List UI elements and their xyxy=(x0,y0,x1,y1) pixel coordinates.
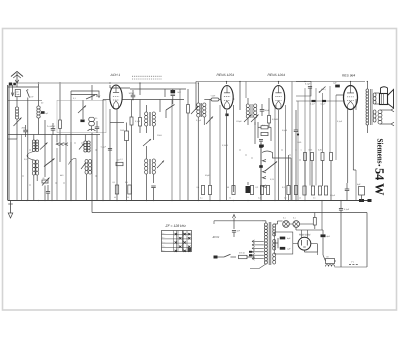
scatter dots xyxy=(47,182,48,183)
heater wire xyxy=(214,220,262,222)
antenna xyxy=(11,72,23,77)
RF transformer left coil xyxy=(197,103,200,107)
resistor R1 xyxy=(59,120,62,129)
wire xyxy=(309,88,311,185)
capacitor 4uF a xyxy=(280,237,286,240)
wire xyxy=(33,135,35,141)
svg-text:c....: c.... xyxy=(162,241,165,243)
svg-text:4μF: 4μF xyxy=(287,237,291,240)
Siemens dot xyxy=(378,164,380,166)
wire xyxy=(322,93,324,152)
svg-text:0,1μF: 0,1μF xyxy=(337,120,343,123)
wire xyxy=(172,96,174,104)
speaker wires xyxy=(375,92,380,94)
svg-text:54 W: 54 W xyxy=(373,168,387,196)
tube V2 xyxy=(221,86,233,110)
wire xyxy=(126,148,128,201)
resistor bank 3 xyxy=(250,186,253,195)
resistor bank 1 xyxy=(208,186,211,195)
svg-text:0,3MΩ: 0,3MΩ xyxy=(222,144,228,147)
svg-text:5k: 5k xyxy=(229,197,231,200)
wire xyxy=(187,89,189,105)
svg-text:d....: d.... xyxy=(162,245,165,248)
resistor bank 0 xyxy=(201,186,204,195)
switch S3 xyxy=(166,105,175,111)
wire xyxy=(123,99,185,101)
band switch contact 3 xyxy=(65,143,68,146)
svg-text:50: 50 xyxy=(227,186,229,189)
corner loop wire xyxy=(296,81,311,96)
wire xyxy=(226,82,228,85)
band coil D right xyxy=(89,159,92,163)
svg-text:60: 60 xyxy=(43,177,45,180)
screen-grid feed line xyxy=(296,100,345,102)
arrow var xyxy=(191,106,199,114)
svg-text:ZF = 128 kHz: ZF = 128 kHz xyxy=(165,224,187,228)
top rail right xyxy=(196,81,365,83)
ground bus xyxy=(8,200,370,202)
resistor xyxy=(303,186,306,195)
arrow var coilA xyxy=(40,143,48,150)
svg-text:2MΩ: 2MΩ xyxy=(120,129,125,132)
capacitor 100pF xyxy=(131,94,136,96)
wire xyxy=(16,119,18,134)
PT taps xyxy=(252,240,264,242)
terminal arrows xyxy=(391,108,394,112)
V4 pin wires xyxy=(347,110,349,184)
capacitor xyxy=(151,185,156,187)
capacitor blob 1uF xyxy=(335,85,340,88)
wire xyxy=(44,186,46,201)
wire xyxy=(361,195,363,201)
wire xyxy=(330,161,332,201)
switch S1 xyxy=(27,90,30,98)
wire xyxy=(245,82,247,99)
wire xyxy=(277,238,279,248)
arrow up xyxy=(233,215,236,219)
svg-text:0,25: 0,25 xyxy=(318,149,322,152)
wire xyxy=(44,120,46,177)
osc coil A core xyxy=(34,140,36,152)
PT secondary mid xyxy=(273,239,276,243)
resistor lamp xyxy=(313,218,316,226)
lamp wires xyxy=(278,220,283,222)
wire xyxy=(336,94,343,96)
wire xyxy=(295,110,297,124)
capacitor left xyxy=(46,191,50,193)
OT secondary a xyxy=(373,93,376,97)
clover coil L3 xyxy=(92,117,95,126)
wire xyxy=(110,122,124,124)
speaker cone xyxy=(388,90,394,109)
svg-text:0,1μF: 0,1μF xyxy=(321,103,327,106)
wire xyxy=(59,84,61,120)
osc coil B left xyxy=(32,160,35,164)
resistor xyxy=(330,153,333,161)
resistor 475 xyxy=(239,255,248,258)
speaker lower winding xyxy=(378,110,382,114)
svg-text:0,1μF: 0,1μF xyxy=(344,208,350,211)
arrowhead loop xyxy=(98,96,100,98)
rect top pins xyxy=(301,230,303,238)
resistor xyxy=(321,153,324,161)
svg-text:1MΩ: 1MΩ xyxy=(297,141,302,144)
svg-text:Ant: Ant xyxy=(16,91,19,94)
volume blob top xyxy=(259,145,263,148)
resistor bank 6 xyxy=(287,186,290,195)
svg-text:0,5: 0,5 xyxy=(24,158,28,161)
pilot lamp 1 xyxy=(283,221,290,228)
volume pot arrow xyxy=(265,162,277,172)
top rail xyxy=(17,82,196,84)
tube V2 cathode blob xyxy=(225,114,228,117)
horizontal res R8 xyxy=(261,132,268,135)
horizontal wire xyxy=(8,134,100,136)
wire xyxy=(278,110,280,201)
wire xyxy=(59,129,61,163)
band switch contact 1 xyxy=(56,143,59,146)
svg-text:1k: 1k xyxy=(299,197,301,200)
svg-text:RGN 1064: RGN 1064 xyxy=(299,233,311,236)
mains switch xyxy=(218,256,225,258)
wire xyxy=(171,100,173,201)
vertical wire left rail xyxy=(7,85,9,201)
wire xyxy=(75,159,77,201)
wire xyxy=(82,100,84,119)
coil L2 xyxy=(37,106,40,109)
wire xyxy=(109,85,111,88)
junction dot xyxy=(297,133,299,135)
svg-text:0,25: 0,25 xyxy=(270,178,275,181)
svg-text:0,1: 0,1 xyxy=(113,181,117,184)
svg-text:0,5μF: 0,5μF xyxy=(330,194,336,197)
svg-text:0,5μF: 0,5μF xyxy=(282,129,288,132)
svg-text:RES 964: RES 964 xyxy=(342,74,355,78)
arrow var T1 xyxy=(143,139,151,146)
capacitor 1nF xyxy=(232,230,236,232)
band coil C core xyxy=(86,141,88,152)
PT bottom lead xyxy=(250,264,266,269)
wire grid line xyxy=(103,99,110,101)
contact arrow 1 xyxy=(263,160,267,162)
wire xyxy=(91,126,93,131)
svg-text:2×440pF: 2×440pF xyxy=(47,125,56,128)
wire xyxy=(295,227,297,230)
coupling loop outer xyxy=(71,91,99,96)
svg-text:0,3: 0,3 xyxy=(258,197,261,200)
capacitor blob 5nF xyxy=(171,90,176,93)
PT secondary top xyxy=(273,224,276,227)
resistor bank 4 xyxy=(260,186,263,195)
bracket between coils xyxy=(27,152,34,161)
horizontal resistor 1M xyxy=(116,162,123,165)
svg-text:475 Ω: 475 Ω xyxy=(239,252,245,255)
capacitor blob 1uF input xyxy=(41,111,45,114)
arrow var T2 xyxy=(157,161,164,169)
tube V3 xyxy=(272,86,284,110)
ground symbol xyxy=(10,201,12,214)
table grid xyxy=(162,231,192,252)
capacitor C2 2x440pF xyxy=(51,128,56,130)
wire xyxy=(285,105,287,201)
wire xyxy=(70,142,72,201)
resistor xyxy=(324,186,327,195)
dot xyxy=(132,99,134,101)
capacitor 4uF box xyxy=(359,187,365,196)
svg-text:30: 30 xyxy=(114,196,116,199)
contact arrow 4 xyxy=(263,185,267,187)
svg-text:50pF: 50pF xyxy=(205,174,210,177)
svg-text:ACH 1: ACH 1 xyxy=(110,73,121,77)
svg-text:Siemens: Siemens xyxy=(376,139,385,165)
wire xyxy=(195,83,197,110)
capacitor blob xyxy=(259,145,264,148)
wire xyxy=(153,174,155,183)
volume bracket xyxy=(262,151,291,158)
wire xyxy=(314,213,316,218)
svg-text:1: 1 xyxy=(301,149,302,152)
wire xyxy=(254,122,256,144)
second top line xyxy=(130,88,186,90)
wire xyxy=(139,83,141,95)
PT core xyxy=(268,222,270,265)
wire xyxy=(84,135,86,142)
table X marks xyxy=(175,233,177,235)
capacitor blob on feed xyxy=(312,100,316,102)
contact arrow 3 xyxy=(263,177,267,179)
resistor R6 xyxy=(268,116,271,124)
capacitor 1uF b xyxy=(280,247,286,250)
wire xyxy=(179,89,181,201)
electrolytic blob xyxy=(246,186,251,193)
wire xyxy=(219,105,221,201)
wire xyxy=(289,223,293,225)
arrow var T3 xyxy=(244,115,252,123)
IF transformer T2 left coil xyxy=(145,159,148,163)
svg-text:50: 50 xyxy=(127,196,129,199)
wire xyxy=(153,126,155,140)
tube V4 xyxy=(344,86,358,110)
wire xyxy=(268,98,270,116)
resistor R3 xyxy=(130,117,133,125)
svg-text:0,5: 0,5 xyxy=(262,124,265,127)
wire xyxy=(209,99,211,186)
svg-text:e....: e.... xyxy=(162,250,165,252)
resistor bank 5 xyxy=(266,186,269,195)
resistor R4 xyxy=(115,185,118,194)
capacitor blob on feed2 xyxy=(322,100,326,102)
wire xyxy=(109,109,111,122)
resistor bank 7 xyxy=(294,186,297,195)
svg-text:0,1μF: 0,1μF xyxy=(310,103,316,106)
capacitor xyxy=(345,188,350,190)
svg-text:Erde: Erde xyxy=(16,93,20,96)
band switch contact 2 xyxy=(60,143,63,146)
wire xyxy=(16,97,18,107)
svg-text:b....: b.... xyxy=(162,236,165,239)
dot xyxy=(233,98,235,100)
wire xyxy=(312,229,323,231)
wire xyxy=(350,82,352,86)
wire xyxy=(70,91,72,201)
wire xyxy=(239,82,241,111)
T2 core xyxy=(148,159,150,174)
capacitor 0,1uF btm xyxy=(339,208,343,210)
arrow var xyxy=(78,106,86,114)
wire xyxy=(273,223,277,225)
wire xyxy=(16,134,18,139)
PT top lead xyxy=(265,221,267,223)
wire xyxy=(165,110,167,118)
svg-text:30: 30 xyxy=(95,117,98,120)
svg-text:0,5: 0,5 xyxy=(313,197,316,200)
gang dashed xyxy=(132,75,162,77)
wire xyxy=(116,109,118,201)
osc coil B core xyxy=(34,160,36,175)
svg-text:0,2: 0,2 xyxy=(282,186,285,189)
wire xyxy=(38,84,40,106)
wire xyxy=(322,161,324,187)
pilot lamp 2 xyxy=(293,221,300,228)
band coil D left xyxy=(85,159,88,163)
resistor xyxy=(311,153,314,161)
svg-text:1nF: 1nF xyxy=(30,96,34,99)
wire xyxy=(315,88,317,185)
svg-text:1,2: 1,2 xyxy=(120,158,124,161)
IF transformer T2 right coil xyxy=(152,159,155,163)
svg-text:<1nF: <1nF xyxy=(211,95,217,98)
svg-text:0,1: 0,1 xyxy=(200,197,203,200)
capacitor C xyxy=(95,126,100,128)
volume control stem xyxy=(260,143,262,201)
svg-text:0,15: 0,15 xyxy=(309,149,313,152)
output transformer primary xyxy=(366,89,369,92)
wire xyxy=(247,98,249,104)
wire xyxy=(278,82,280,85)
wire xyxy=(159,100,161,105)
wire xyxy=(56,135,58,143)
svg-text:0,1μF: 0,1μF xyxy=(305,83,311,86)
capacitor 4uF c xyxy=(321,234,326,237)
svg-text:0,1: 0,1 xyxy=(283,217,286,220)
RF transformer right coil xyxy=(203,103,206,107)
svg-text:1μF: 1μF xyxy=(45,112,49,115)
arrow var xyxy=(206,117,213,125)
wire xyxy=(304,88,306,200)
svg-text:440: 440 xyxy=(60,174,64,177)
ground bus junction dots xyxy=(26,200,27,201)
horizontal res R7 xyxy=(261,126,268,129)
arrow var L1 xyxy=(14,118,22,127)
svg-text:100pF: 100pF xyxy=(236,120,242,123)
resistor bank 2 xyxy=(232,186,235,195)
wire xyxy=(329,86,331,152)
svg-text:0,1μF: 0,1μF xyxy=(196,119,202,122)
svg-text:0,1: 0,1 xyxy=(293,217,296,220)
wire top-left xyxy=(16,83,18,87)
capacitor 0,1uF left xyxy=(108,148,112,150)
svg-text:4μF: 4μF xyxy=(357,183,361,186)
blob xyxy=(368,199,372,202)
contact arrow 2 xyxy=(263,171,267,173)
rail step xyxy=(195,82,197,84)
svg-text:0,1: 0,1 xyxy=(197,186,200,189)
wire xyxy=(311,161,313,187)
wire xyxy=(293,243,298,245)
OT secondary b xyxy=(373,110,376,114)
capacitor 0,1uF xyxy=(308,86,312,88)
wire xyxy=(317,252,319,255)
box around band coils xyxy=(57,100,106,133)
svg-text:0,1μF: 0,1μF xyxy=(101,146,107,149)
IF transformer T1 left coil xyxy=(145,112,148,116)
speaker top loop xyxy=(381,87,388,94)
wire xyxy=(27,98,29,201)
svg-text:RENS 1264: RENS 1264 xyxy=(268,73,286,77)
band coil C right xyxy=(87,141,90,144)
PT primary coil xyxy=(264,223,267,226)
T1 core xyxy=(148,112,150,126)
wire xyxy=(91,133,93,213)
wire xyxy=(213,221,215,224)
resistor xyxy=(318,186,321,195)
svg-text:4μF: 4μF xyxy=(327,235,331,238)
wire xyxy=(290,158,292,201)
resistor R5 xyxy=(128,185,131,194)
resistor xyxy=(304,153,307,161)
IF transformer T3 right xyxy=(254,104,257,108)
wire xyxy=(291,82,293,201)
svg-text:40 W: 40 W xyxy=(213,235,220,239)
switch S2 xyxy=(86,95,95,99)
wire xyxy=(146,146,148,159)
wire xyxy=(51,135,53,201)
capacitor xyxy=(294,129,299,131)
mains plug blob xyxy=(214,256,218,259)
antenna terminal blobs xyxy=(9,83,12,86)
band coil C left xyxy=(84,141,87,144)
electrolytic xyxy=(125,131,129,141)
svg-text:1μF: 1μF xyxy=(333,82,337,85)
capacitor xyxy=(259,139,263,141)
PT secondary bot xyxy=(273,253,276,257)
top rail junction dots xyxy=(38,82,39,83)
wire xyxy=(226,110,228,201)
svg-text:Dr: Dr xyxy=(327,256,330,259)
capacitor blob xyxy=(80,120,84,123)
wire xyxy=(274,105,276,201)
coil L1 xyxy=(15,107,18,110)
svg-text:20kΩ: 20kΩ xyxy=(157,134,162,137)
tube V1 ACH1 xyxy=(110,85,122,109)
wire xyxy=(164,89,166,97)
wire rect right xyxy=(311,243,318,245)
wire xyxy=(355,99,357,110)
wire xyxy=(366,213,368,268)
antenna coupling box xyxy=(15,90,20,97)
mid bus xyxy=(92,212,367,214)
svg-text:RENS 1254: RENS 1254 xyxy=(217,73,235,77)
svg-text:0,1: 0,1 xyxy=(73,97,77,100)
feed arrow wire xyxy=(12,85,14,96)
wire xyxy=(197,83,199,103)
wire xyxy=(288,155,290,186)
resistor xyxy=(311,186,314,195)
svg-text:0,3: 0,3 xyxy=(256,186,259,189)
wire xyxy=(219,97,221,99)
IF transformer T1 right coil xyxy=(152,112,155,116)
svg-text:0,2: 0,2 xyxy=(284,197,287,200)
